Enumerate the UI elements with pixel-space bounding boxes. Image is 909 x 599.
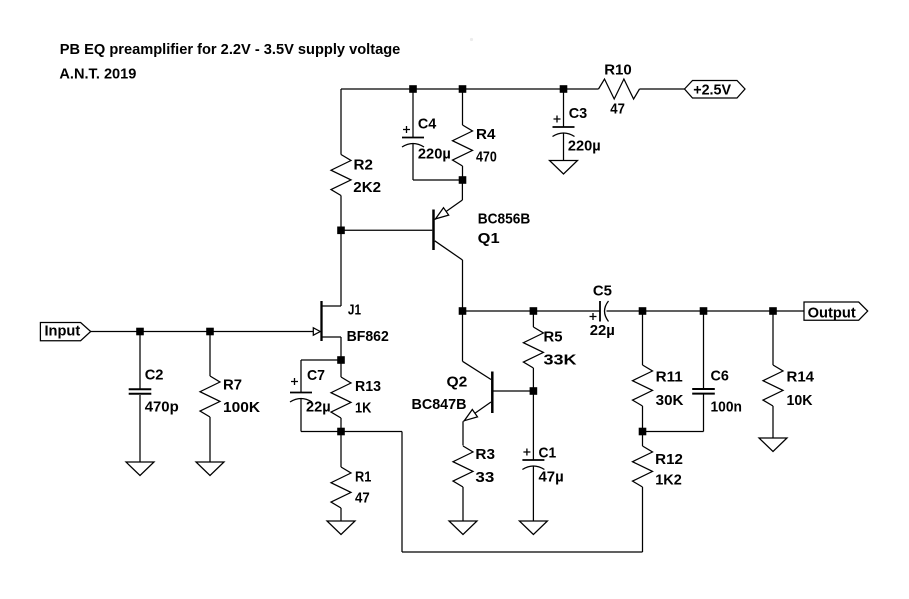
- svg-text:Output: Output: [808, 305, 856, 322]
- wire C1 top lead: [532, 391, 534, 460]
- capacitor C7 plates: [290, 392, 312, 394]
- faint dot artifact: [470, 38, 473, 41]
- wire Q1 emitter vertical: [461, 180, 463, 200]
- svg-text:R14: R14: [787, 368, 815, 385]
- svg-text:Input: Input: [45, 322, 81, 339]
- svg-text:R10: R10: [604, 62, 632, 79]
- wire R2 top lead: [340, 89, 342, 155]
- node R7 top: [206, 328, 214, 336]
- wire C7 top lead: [300, 360, 302, 393]
- svg-text:R13: R13: [355, 378, 381, 395]
- svg-text:R12: R12: [655, 451, 683, 468]
- Q1 emitter arrow (PNP, points to base): [436, 208, 449, 219]
- svg-text:R3: R3: [475, 446, 495, 463]
- svg-text:47µ: 47µ: [539, 469, 564, 486]
- svg-text:R5: R5: [544, 329, 563, 346]
- wire R4 bottom lead: [462, 166, 464, 180]
- node C2 top: [136, 328, 144, 336]
- capacitor C6 plates: [692, 388, 715, 390]
- wire Q2 collector vertical: [462, 311, 464, 361]
- node Q1 base node: [337, 227, 345, 235]
- wire R12 top lead: [642, 432, 644, 447]
- output flag: [804, 302, 868, 320]
- transistor Q2 base bar: [491, 372, 494, 414]
- node R14 top: [769, 307, 777, 315]
- svg-text:30K: 30K: [656, 392, 684, 409]
- node Q2 base node: [530, 387, 538, 395]
- capacitor C2 plates: [129, 388, 152, 390]
- svg-text:22µ: 22µ: [306, 399, 331, 416]
- node R11/R12/C6 node: [639, 428, 647, 436]
- wire R1 bottom lead: [340, 508, 342, 521]
- svg-text:C4: C4: [418, 115, 437, 132]
- node R5 top: [530, 307, 538, 315]
- resistor R14 zigzag: [763, 365, 783, 406]
- transistor Q1 base bar: [432, 210, 435, 251]
- wire C4 bottom horizontal: [413, 179, 463, 181]
- C7 plus: [291, 378, 298, 385]
- node C5 right node: [639, 307, 647, 315]
- node Q1/Q2 collector node: [459, 307, 467, 315]
- wire C2 top lead: [139, 332, 141, 391]
- wire rail2 right: [607, 310, 805, 312]
- ground C2 ground: [126, 462, 154, 476]
- wire R12 bottom lead: [642, 487, 644, 552]
- wire R5 top lead: [532, 311, 534, 327]
- svg-text:C3: C3: [569, 105, 588, 122]
- wire C2 bottom lead: [139, 395, 141, 462]
- node C3 top: [560, 85, 568, 93]
- resistor R10 zigzag: [599, 79, 640, 99]
- node J1 source node: [337, 356, 345, 364]
- svg-text:R11: R11: [656, 368, 683, 385]
- capacitor C4 plates: [402, 137, 424, 139]
- wire C1 bottom lead: [532, 467, 534, 522]
- resistor R13 zigzag: [331, 377, 351, 418]
- input flag: [40, 323, 90, 341]
- svg-text:BC847B: BC847B: [412, 396, 467, 413]
- resistor R4 zigzag: [453, 125, 473, 166]
- svg-text:Q1: Q1: [478, 230, 500, 247]
- svg-text:1K: 1K: [355, 400, 372, 417]
- ground C1 ground: [519, 521, 547, 535]
- svg-text:R2: R2: [354, 157, 373, 174]
- svg-text:A.N.T. 2019: A.N.T. 2019: [59, 65, 136, 82]
- wire R13 bottom lead: [340, 418, 342, 432]
- svg-text:C2: C2: [145, 366, 164, 383]
- wire J1 drain lead: [322, 305, 341, 307]
- wire R11 top lead: [642, 311, 644, 365]
- wire C6 bottom lead: [703, 395, 705, 432]
- wire R5 bottom lead: [532, 368, 534, 391]
- wire Q2 collector diagonal: [463, 361, 492, 379]
- svg-text:C6: C6: [711, 368, 729, 385]
- ground R7 ground: [196, 462, 224, 476]
- wire C4 bottom lead: [412, 144, 414, 180]
- wire Q2 emitter vertical: [462, 421, 464, 445]
- JFET J1 channel bar: [320, 301, 322, 341]
- wire R1 top lead: [340, 432, 342, 468]
- wire C3 top lead: [563, 89, 565, 127]
- wire C6 top lead: [703, 311, 705, 389]
- svg-text:C5: C5: [593, 283, 612, 300]
- svg-text:220µ: 220µ: [568, 138, 601, 155]
- capacitor C1 plates: [522, 459, 544, 461]
- wire C4 top lead: [412, 89, 414, 138]
- wire R14 bottom lead: [772, 406, 774, 438]
- C3 plus: [554, 116, 561, 123]
- svg-text:R1: R1: [355, 469, 371, 486]
- power flag +2.5V: [685, 81, 746, 99]
- wire C7 bottom horizontal: [301, 431, 341, 433]
- wire feedback to source node: [341, 431, 402, 433]
- wire R4 top lead: [462, 89, 464, 125]
- svg-text:33K: 33K: [544, 352, 577, 369]
- resistor R7 zigzag: [200, 376, 220, 417]
- wire Q1 collector vertical: [462, 260, 464, 311]
- node C4/R4/emitter node: [459, 176, 467, 184]
- svg-text:R7: R7: [223, 377, 242, 394]
- wire R13 top lead: [340, 360, 342, 377]
- svg-text:Q2: Q2: [447, 374, 468, 391]
- svg-text:1K2: 1K2: [655, 472, 682, 489]
- resistor R12 zigzag: [633, 446, 653, 487]
- C4 plus: [403, 126, 410, 133]
- C1 plus: [523, 449, 530, 456]
- wire R7 bottom lead: [209, 417, 211, 462]
- wire R7 top lead: [209, 332, 211, 377]
- C5 plus: [590, 313, 597, 320]
- capacitor C3 plates: [553, 126, 575, 128]
- resistor R2 zigzag: [331, 155, 351, 196]
- capacitor C5 plates: [599, 301, 601, 322]
- wire feedback bottom: [402, 551, 643, 553]
- wire J1 source vertical: [340, 337, 342, 360]
- wire Q1 base: [341, 229, 432, 231]
- svg-text:220µ: 220µ: [418, 146, 451, 163]
- Q2 emitter arrow (NPN, points out): [464, 410, 477, 421]
- wire Q1 emitter diagonal: [435, 200, 463, 220]
- wire R3 bottom lead: [462, 487, 464, 521]
- wire feedback vertical: [401, 432, 403, 553]
- node C6 top: [700, 307, 708, 315]
- wire top rail: [341, 88, 599, 90]
- svg-text:PB EQ preamplifier for 2.2V -: PB EQ preamplifier for 2.2V - 3.5V suppl…: [60, 41, 401, 58]
- svg-text:33: 33: [475, 469, 494, 486]
- wire R10 to +2.5V flag: [640, 88, 685, 90]
- wire C3 bottom lead: [563, 134, 565, 161]
- wire Q1 collector diagonal: [435, 241, 463, 260]
- svg-text:100n: 100n: [711, 399, 742, 416]
- svg-text:C7: C7: [307, 367, 325, 384]
- wire R14 top lead: [772, 311, 774, 365]
- wire Q2 emitter diagonal: [464, 402, 492, 421]
- ground R3 ground: [449, 521, 477, 535]
- svg-text:BC856B: BC856B: [478, 211, 531, 228]
- wire rail2 left: [463, 310, 601, 312]
- wire Q2 base: [494, 390, 534, 392]
- wire R11 bottom lead: [642, 406, 644, 432]
- svg-text:BF862: BF862: [347, 328, 389, 345]
- svg-text:+2.5V: +2.5V: [693, 81, 731, 98]
- wire C7 top horizontal: [301, 359, 341, 361]
- svg-text:470p: 470p: [145, 399, 179, 416]
- svg-text:2K2: 2K2: [353, 179, 381, 196]
- svg-text:47: 47: [355, 490, 370, 507]
- wire C7 bottom lead: [300, 399, 302, 432]
- svg-text:C1: C1: [539, 445, 557, 462]
- resistor R3 zigzag: [453, 446, 473, 487]
- J1 gate arrow: [313, 328, 320, 335]
- svg-text:10K: 10K: [787, 392, 813, 409]
- resistor R5 zigzag: [523, 327, 543, 368]
- wire C6 bottom horizontal: [643, 431, 704, 433]
- svg-text:100K: 100K: [223, 399, 260, 416]
- svg-text:470: 470: [476, 149, 497, 166]
- svg-text:R4: R4: [476, 126, 496, 143]
- wire R2 bottom to J1 drain: [340, 196, 342, 307]
- svg-text:J1: J1: [348, 302, 361, 319]
- ground R1 ground: [327, 521, 355, 535]
- node C4 top: [409, 85, 417, 93]
- ground R14 ground: [759, 438, 787, 452]
- wire J1 source lead: [322, 336, 341, 338]
- node R4 top: [459, 85, 467, 93]
- svg-text:47: 47: [610, 101, 625, 118]
- ground C3 ground: [550, 161, 578, 175]
- svg-text:22µ: 22µ: [590, 322, 615, 339]
- resistor R1 zigzag: [331, 467, 351, 508]
- node J1 source resistor node: [337, 428, 345, 436]
- wire input wire: [91, 331, 314, 333]
- resistor R11 zigzag: [633, 365, 653, 406]
